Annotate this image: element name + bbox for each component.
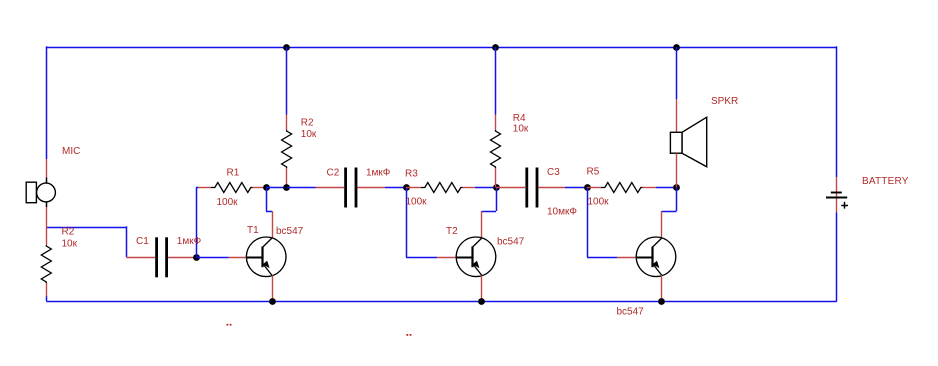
resistor R4 top lead <box>495 115 497 131</box>
node R3 base junction <box>403 184 410 191</box>
resistor R2 body <box>282 130 292 168</box>
resistor R4 body <box>491 130 501 168</box>
label T3 bc547 <box>617 307 645 318</box>
node R5 base junction <box>584 184 591 191</box>
speaker SPKR bottom lead <box>676 153 678 187</box>
capacitor C1 left lead <box>126 257 155 259</box>
svg-text:100к: 100к <box>588 197 610 208</box>
speaker SPKR symbol <box>670 117 706 167</box>
wire T3 collector jog <box>662 188 677 212</box>
resistor R3 right lead <box>463 187 476 189</box>
transistor T1 <box>246 237 286 277</box>
wire T3 base lead <box>617 257 637 259</box>
wire R2 drop <box>286 47 288 115</box>
wire mic to C1 horizontal <box>46 227 126 229</box>
wire T2 collector jog <box>482 188 497 212</box>
wire left rail upper <box>46 46 48 159</box>
label C1 <box>136 236 149 247</box>
svg-text:T2: T2 <box>446 226 458 237</box>
capacitor C3 plates <box>525 168 538 208</box>
wire right rail upper <box>836 46 838 177</box>
resistor R1 right lead <box>253 187 267 189</box>
node T2 emitter junction <box>478 298 485 305</box>
stray dots right <box>406 334 411 336</box>
wire T2 base drop <box>406 188 437 258</box>
resistor R5 left lead <box>587 187 601 189</box>
svg-text:BATTERY: BATTERY <box>862 176 909 187</box>
label MIC <box>62 146 80 157</box>
label R4 <box>513 113 526 124</box>
svg-text:C2: C2 <box>327 168 340 179</box>
node T2 collector junction <box>493 184 500 191</box>
capacitor C3 right lead <box>539 187 566 189</box>
battery lead upper <box>836 177 838 213</box>
wire C3 to R5 node <box>565 187 587 189</box>
svg-text:10к: 10к <box>62 239 78 250</box>
capacitor C2 left lead <box>316 187 345 189</box>
label R1 value 100k <box>217 197 239 208</box>
wire T2 emitter lead <box>481 275 483 301</box>
capacitor C3 left lead <box>496 187 525 189</box>
resistor R4 bottom lead <box>495 168 497 188</box>
label T1 bc547 <box>276 226 304 237</box>
svg-text:1мкФ: 1мкФ <box>366 168 391 179</box>
svg-text:bc547: bc547 <box>497 237 525 248</box>
label C3 <box>547 167 560 178</box>
node T1 emitter junction <box>269 298 276 305</box>
resistor R3 body <box>421 183 463 193</box>
transistor T2 <box>456 237 496 277</box>
wire top rail <box>46 47 836 49</box>
svg-text:1мкФ: 1мкФ <box>177 236 202 247</box>
label R4 value 10k <box>513 124 529 135</box>
svg-text:10мкФ: 10мкФ <box>547 207 577 218</box>
wire node to R2 node <box>266 187 287 189</box>
node top rail R4 junction <box>492 44 499 51</box>
svg-text:R5: R5 <box>587 167 600 178</box>
microphone lower lead <box>46 207 48 245</box>
label R3 value 100k <box>406 197 428 208</box>
wire R4 drop <box>495 47 497 115</box>
wire T1 emitter lead <box>272 275 274 301</box>
wire C1 input drop <box>126 226 128 257</box>
label C1 value 1mkF <box>177 236 202 247</box>
node R2 bottom junction <box>283 184 290 191</box>
label SPKR <box>711 96 738 107</box>
svg-text:C1: C1 <box>136 236 149 247</box>
label 10k left <box>62 239 78 250</box>
wire bottom rail <box>46 301 836 303</box>
svg-text:T1: T1 <box>247 225 259 236</box>
transistor T3 <box>636 237 676 277</box>
label T2 bc547 <box>497 237 525 248</box>
speaker SPKR top lead <box>676 99 678 133</box>
wire T1 collector jog <box>266 188 272 212</box>
label T2 <box>446 226 458 237</box>
battery plates <box>826 193 847 198</box>
wire R5 to node <box>656 187 677 189</box>
wire feedback riser stage1 <box>196 188 199 258</box>
wire R2 node to C2 <box>287 187 316 189</box>
svg-text:R4: R4 <box>513 113 526 124</box>
svg-text:bc547: bc547 <box>617 307 645 318</box>
wire T1 collector lead <box>272 211 274 238</box>
wire SPKR drop <box>676 47 678 99</box>
label R5 <box>587 167 600 178</box>
wire T3 collector lead <box>661 211 663 238</box>
svg-text:C3: C3 <box>547 167 560 178</box>
label C2 value 1mkF <box>366 168 391 179</box>
wire T3 base drop <box>587 188 617 258</box>
wire T3 emitter lead <box>661 275 663 301</box>
svg-text:R3: R3 <box>405 169 418 180</box>
wire left rail bottom corner <box>46 296 48 301</box>
node C1-T1 base junction <box>193 254 200 261</box>
resistor R2 bottom lead <box>286 168 288 188</box>
svg-text:R2: R2 <box>301 118 314 129</box>
svg-text:MIC: MIC <box>62 146 80 157</box>
resistor R2 left lower lead <box>46 283 48 297</box>
resistor R1 body <box>211 183 253 193</box>
label R3 <box>405 169 418 180</box>
wire T2 collector lead <box>481 211 483 238</box>
resistor R2 left body <box>41 245 51 283</box>
wire R3 to node <box>475 187 496 189</box>
battery plus sign <box>841 202 848 209</box>
resistor R5 body <box>601 183 643 193</box>
label R2 <box>301 118 314 129</box>
label R5 value 100k <box>588 197 610 208</box>
label C2 <box>327 168 340 179</box>
label R2 left <box>62 227 75 238</box>
label R2 value 10k <box>301 129 317 140</box>
svg-text:100к: 100к <box>217 197 239 208</box>
svg-text:R2: R2 <box>62 227 75 238</box>
capacitor C1 plates <box>155 237 168 277</box>
wire T2 base lead <box>437 257 457 259</box>
label C3 value 10mkF <box>547 207 577 218</box>
svg-text:10к: 10к <box>513 124 529 135</box>
resistor R3 left lead <box>406 187 421 189</box>
svg-text:10к: 10к <box>301 129 317 140</box>
node T3 emitter junction <box>658 298 665 305</box>
resistor R1 left lead <box>198 187 211 189</box>
resistor R5 right lead <box>643 187 657 189</box>
microphone MIC lead upper <box>46 159 48 178</box>
wire T1 base lead <box>229 257 248 259</box>
wire right rail lower <box>836 213 838 302</box>
resistor R2 top lead <box>286 115 288 131</box>
wire C2 to R3 node <box>385 187 406 189</box>
svg-text:bc547: bc547 <box>276 226 304 237</box>
capacitor C2 right lead <box>358 187 386 189</box>
svg-text:R1: R1 <box>227 168 240 179</box>
node top rail SPKR junction <box>673 44 680 51</box>
node T1 collector junction <box>263 184 270 191</box>
wire base node to T1 <box>196 257 229 259</box>
label BATTERY <box>862 176 909 187</box>
node top rail R2 junction <box>283 44 290 51</box>
capacitor C1 right lead <box>168 257 196 259</box>
microphone MIC symbol <box>26 178 55 208</box>
stray dots left <box>227 324 232 326</box>
label T1 <box>247 225 259 236</box>
capacitor C2 plates <box>344 168 357 208</box>
label R1 <box>227 168 240 179</box>
svg-text:100к: 100к <box>406 197 428 208</box>
svg-text:SPKR: SPKR <box>711 96 738 107</box>
node SPKR junction <box>673 184 680 191</box>
